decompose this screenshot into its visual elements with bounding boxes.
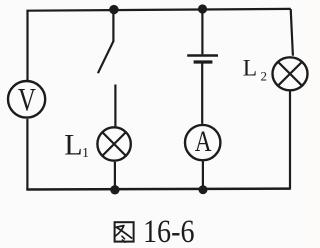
- svg-text:1: 1: [82, 146, 89, 161]
- wire top: [26, 9, 290, 11]
- battery cell: short plate: [194, 60, 213, 63]
- node top junction 2: [198, 4, 207, 13]
- battery cell: long plate: [187, 54, 218, 56]
- wire bottom: [26, 187, 291, 190]
- wire switch upper lead: [112, 10, 114, 42]
- wire battery to ammeter: [201, 64, 203, 124]
- caption: hanzi "tu" (figure) drawn as paths: [115, 222, 134, 242]
- node top junction 1: [109, 5, 118, 14]
- svg-text:V: V: [18, 82, 36, 118]
- lamp L2: [273, 57, 308, 90]
- wire left lower: [26, 119, 28, 190]
- wire lamp L1 to bottom: [114, 162, 116, 190]
- wire right lower: [289, 91, 291, 189]
- wire ammeter to bottom: [202, 161, 204, 190]
- svg-text:L: L: [64, 129, 82, 162]
- svg-text:16-6: 16-6: [143, 214, 195, 248]
- svg-text:L: L: [243, 55, 257, 81]
- lamp L1: [97, 127, 130, 160]
- wire battery upper lead: [201, 9, 203, 54]
- svg-text:2: 2: [261, 69, 268, 84]
- ammeter A: [185, 125, 220, 160]
- voltmeter V: [8, 81, 45, 118]
- node bottom junction 1: [110, 185, 119, 194]
- wire left upper: [26, 11, 28, 81]
- svg-text:A: A: [195, 124, 212, 157]
- switch S blade: [98, 41, 114, 73]
- wire switch lower contact: [114, 85, 116, 127]
- node bottom junction 2: [199, 185, 208, 194]
- wire right upper: [291, 9, 293, 56]
